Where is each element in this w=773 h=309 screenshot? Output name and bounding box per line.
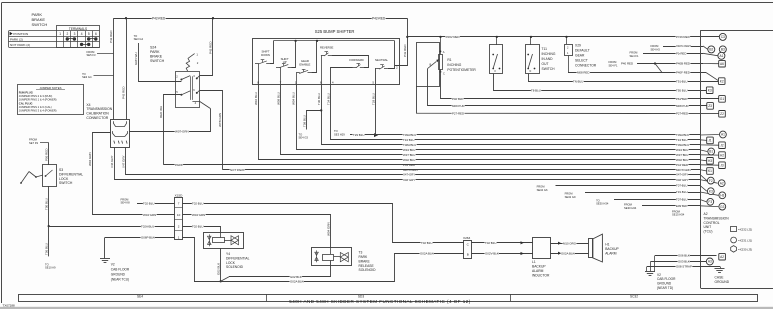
svg-text:CAB FLOOR: CAB FLOOR — [111, 268, 130, 272]
svg-text:BACKUP: BACKUP — [605, 247, 619, 251]
svg-text:T00 BLU: T00 BLU — [44, 198, 48, 210]
wire P29 RED inching bus — [407, 36, 719, 38]
Y4 diode — [208, 236, 212, 239]
svg-text:X46 GRY: X46 GRY — [676, 178, 688, 182]
Y4 solenoid box — [204, 233, 244, 249]
svg-text:BACKUP: BACKUP — [532, 265, 546, 269]
svg-text:PARK: PARK — [359, 255, 369, 259]
svg-text:E09 BLK: E09 BLK — [676, 204, 687, 208]
inching switch 2 box — [526, 45, 540, 74]
svg-text:GROUND: GROUND — [111, 273, 126, 277]
svg-text:ALARM: ALARM — [605, 251, 617, 255]
svg-text:5: 5 — [88, 32, 90, 36]
svg-text:G06 BLK: G06 BLK — [678, 254, 690, 258]
svg-text:W04 GRN: W04 GRN — [143, 213, 156, 217]
svg-text:T8 BLU: T8 BLU — [531, 88, 541, 92]
svg-text:P27 RED: P27 RED — [452, 111, 464, 115]
svg-text:H3: H3 — [720, 194, 724, 198]
junction on bus at X4 drop — [125, 17, 127, 19]
svg-text:B: B — [430, 63, 432, 67]
svg-text:T30 BLU: T30 BLU — [317, 93, 321, 105]
table row label POSITION — [10, 32, 13, 36]
S25 SHIFT DOWN wires — [258, 64, 260, 85]
R1 potentiometer — [440, 37, 442, 54]
svg-text:S24: S24 — [150, 46, 156, 50]
svg-text:REVERSE: REVERSE — [320, 45, 334, 49]
svg-text:SE32 G9: SE32 G9 — [565, 195, 576, 199]
svg-text:JUMPER PINS 3 & 4 (POWER): JUMPER PINS 3 & 4 (POWER) — [19, 108, 57, 112]
wire T19 BLU row 12 — [585, 192, 700, 194]
svg-text:T29 BLU: T29 BLU — [371, 93, 375, 105]
X4 connector body — [111, 120, 130, 148]
svg-text:W34 BLU: W34 BLU — [676, 148, 688, 152]
svg-text:1: 1 — [59, 32, 61, 36]
svg-text:JUMPER PINS 1 & 4 (POWER): JUMPER PINS 1 & 4 (POWER) — [19, 98, 57, 102]
svg-text:X47 GRY: X47 GRY — [403, 173, 415, 177]
svg-text:W37 BLU: W37 BLU — [403, 153, 415, 157]
TCU legend circle X231 — [731, 237, 737, 243]
svg-text:P29V RED: P29V RED — [446, 35, 460, 39]
terminals table grid — [57, 26, 100, 48]
svg-text:S3: S3 — [59, 168, 63, 172]
L1 inductor box — [533, 238, 551, 259]
svg-text:T02 BLU: T02 BLU — [143, 202, 154, 206]
svg-text:NEUTRAL: NEUTRAL — [375, 58, 388, 62]
svg-text:W04 BLU: W04 BLU — [292, 92, 296, 105]
S25 REVERSE wires — [321, 55, 323, 84]
wire W10 BLU pin8 to row W02 BLU — [259, 84, 701, 159]
svg-text:INCHING: INCHING — [447, 63, 461, 67]
svg-text:ALARM: ALARM — [532, 269, 544, 273]
svg-text:PARK: PARK — [175, 163, 183, 167]
wire T02 BLU into X15D pin 7 — [137, 203, 175, 205]
svg-text:SE4: SE4 — [137, 294, 143, 298]
jumper notes box — [18, 85, 84, 115]
wire P42 RED second drop to X4 — [126, 18, 128, 119]
svg-text:P40 BLK: P40 BLK — [452, 97, 463, 101]
svg-text:A1: A1 — [721, 133, 725, 137]
svg-text:J3: J3 — [720, 163, 724, 167]
S25 NEUTRAL wires — [375, 69, 378, 85]
svg-text:OUT: OUT — [542, 62, 549, 66]
svg-text:A2: A2 — [704, 212, 708, 216]
svg-text:SE5 F3: SE5 F3 — [87, 53, 96, 57]
S25 bump shifter box — [253, 39, 400, 85]
svg-text:NOT PARK: NOT PARK — [230, 168, 245, 172]
svg-text:X15D: X15D — [175, 193, 184, 197]
svg-text:G02V BLK: G02V BLK — [485, 252, 499, 256]
svg-text:JUMPER PINS 1 & 6 (CAL): JUMPER PINS 1 & 6 (CAL) — [19, 105, 52, 109]
wire X4 left side to X15D pin 10 (W04 GRN) — [93, 133, 175, 215]
svg-text:B3: B3 — [721, 48, 725, 52]
case ground symbol — [715, 268, 725, 270]
junction S3 branch — [48, 225, 50, 227]
cab floor ground V2 left — [104, 237, 106, 258]
svg-text:CALIBRATION: CALIBRATION — [86, 112, 109, 116]
wire G02V BLK X263 B to L1 — [472, 253, 533, 255]
svg-text:G3: G3 — [720, 205, 724, 209]
svg-text:W34 BLU: W34 BLU — [403, 148, 415, 152]
T3 solenoid box — [312, 248, 352, 266]
table contact dots PARK row — [66, 37, 69, 40]
svg-text:P06 RED: P06 RED — [44, 148, 48, 161]
title bar frame — [19, 295, 758, 302]
svg-text:4: 4 — [81, 32, 83, 36]
svg-text:2: 2 — [66, 32, 68, 36]
wire P27 RED row — [417, 86, 720, 114]
S24 contacts row 5-6 — [180, 94, 182, 96]
wire T07 BLU row 13 — [614, 199, 700, 201]
svg-text:P42 RED: P42 RED — [109, 30, 113, 43]
wire TN BLU switch2 to TCU — [529, 74, 719, 82]
svg-text:=X232 (J2): =X232 (J2) — [738, 227, 752, 231]
svg-text:T02 BLU: T02 BLU — [485, 241, 496, 245]
inching switch 2 — [530, 37, 532, 45]
svg-text:T07 BLU: T07 BLU — [676, 184, 687, 188]
S24 mechanical link — [190, 76, 192, 100]
svg-text:T11: T11 — [542, 47, 548, 51]
X29 connector body — [565, 45, 573, 56]
S25 FORWARD wires — [331, 68, 353, 85]
svg-text:SE34 G6: SE34 G6 — [537, 188, 548, 192]
svg-text:T02 BLU: T02 BLU — [192, 224, 203, 228]
wire V2 ground drop 3 — [646, 267, 648, 272]
svg-text:K3: K3 — [709, 189, 713, 193]
svg-text:POTENTIOMETER: POTENTIOMETER — [447, 68, 476, 72]
svg-text:6: 6 — [95, 32, 97, 36]
S24 lever actuator — [186, 58, 189, 71]
wire X29 to inching bus — [566, 37, 568, 44]
svg-text:UNIT: UNIT — [704, 225, 712, 229]
svg-text:PARK: PARK — [150, 50, 160, 54]
wire T07 BLU row 11 — [556, 185, 701, 187]
svg-text:SE15 H34: SE15 H34 — [672, 213, 685, 217]
svg-text:CONNECTOR: CONNECTOR — [86, 116, 108, 120]
svg-text:X47 GRY: X47 GRY — [676, 173, 688, 177]
svg-text:H1: H1 — [605, 243, 609, 247]
svg-text:C3: C3 — [721, 35, 725, 39]
T3 diode — [315, 252, 319, 255]
svg-text:SE7 F9: SE7 F9 — [29, 141, 38, 145]
svg-text:X46 GRY: X46 GRY — [110, 155, 114, 168]
svg-text:G02 BLK: G02 BLK — [216, 263, 220, 275]
TCU pin A3 circle — [706, 258, 713, 265]
svg-text:SELECT: SELECT — [575, 59, 588, 63]
wire T00 BLU from S3 — [48, 186, 50, 226]
wire M10 ORG L1 to H1 — [551, 243, 589, 245]
wire P40 BLK pot C to TCU — [441, 70, 720, 99]
svg-text:BRAKE: BRAKE — [359, 259, 371, 263]
svg-text:T07 BLU: T07 BLU — [676, 198, 687, 202]
svg-text:C: C — [443, 71, 445, 75]
svg-text:TX07288: TX07288 — [3, 303, 16, 307]
svg-text:DOWN: DOWN — [261, 53, 270, 57]
svg-text:DIFFERENTIAL: DIFFERENTIAL — [226, 256, 250, 260]
wire G02 BLK from T3 to Y4 junction — [229, 260, 331, 276]
svg-text:SOLENOID: SOLENOID — [359, 268, 377, 272]
wire G06 BLK to TCU pin A2 — [655, 255, 717, 257]
svg-text:LOCK: LOCK — [226, 261, 236, 265]
svg-text:SE4 H3: SE4 H3 — [651, 47, 661, 51]
svg-text:SE10 A9: SE10 A9 — [45, 266, 56, 270]
junction below Y4 — [220, 280, 222, 282]
junction T30 branch — [320, 109, 322, 111]
svg-text:NOT PARK (2): NOT PARK (2) — [10, 43, 30, 47]
svg-text:T02 BLU: T02 BLU — [192, 202, 203, 206]
svg-text:T34 BLU: T34 BLU — [676, 138, 687, 142]
svg-text:R1: R1 — [447, 58, 451, 62]
wire P42 RED bus — [114, 18, 408, 20]
wire P43 RED drop — [395, 18, 408, 65]
wire T02 BLU X15D pin2 to Y4 solenoid — [183, 227, 221, 233]
svg-text:SE4 F1: SE4 F1 — [609, 63, 618, 67]
svg-text:W37 BLU: W37 BLU — [676, 153, 688, 157]
svg-text:SE30 H34: SE30 H34 — [596, 202, 609, 206]
svg-text:(NEAR TCU): (NEAR TCU) — [111, 278, 129, 282]
S25 GEAR ENABLE wires — [296, 73, 298, 84]
svg-text:J1: J1 — [708, 139, 712, 143]
svg-text:X263: X263 — [463, 236, 471, 240]
svg-text:W04 GRN: W04 GRN — [192, 213, 205, 217]
wire V2 ground drop 1 — [654, 256, 656, 272]
svg-text:L1: L1 — [532, 260, 536, 264]
S3 switch box — [43, 165, 57, 187]
svg-text:T09 BLU: T09 BLU — [303, 115, 307, 127]
wire T06 BLU down from junction — [48, 226, 50, 256]
wire diagonals to TCU lower pins — [700, 134, 719, 137]
svg-text:CONNECTOR: CONNECTOR — [575, 64, 597, 68]
svg-text:P40B RED: P40B RED — [676, 62, 690, 66]
page border frame — [2, 2, 773, 4]
wire P40 RED with split — [637, 63, 703, 65]
svg-text:RUN PLUG: RUN PLUG — [19, 91, 33, 95]
S24 switch box — [176, 72, 200, 108]
svg-text:A1: A1 — [719, 54, 723, 58]
svg-text:M09 PUR: M09 PUR — [452, 104, 465, 108]
svg-text:X46 GRY: X46 GRY — [403, 178, 415, 182]
wire G02A BLK L1 to H1 — [551, 253, 589, 255]
svg-text:H2: H2 — [720, 153, 724, 157]
svg-text:T09A BLU: T09A BLU — [676, 143, 689, 147]
svg-text:PARK (2): PARK (2) — [10, 38, 23, 42]
wire P42 RED drop to S24 pin 3 — [197, 76, 200, 79]
table contact dots NOT PARK row — [80, 43, 83, 46]
svg-text:DIFFERENTIAL: DIFFERENTIAL — [59, 172, 83, 176]
svg-text:=X230 (J3): =X230 (J3) — [738, 247, 752, 251]
svg-text:G08 STRAP: G08 STRAP — [676, 265, 692, 269]
TCU upper connector pins — [719, 33, 726, 40]
T3 coil — [323, 255, 334, 261]
svg-text:N: N — [530, 70, 532, 73]
svg-text:A2: A2 — [720, 181, 724, 185]
svg-text:M08 RED: M08 RED — [577, 71, 590, 75]
svg-text:P43 RED: P43 RED — [403, 44, 407, 57]
svg-text:T19 BLU: T19 BLU — [676, 190, 687, 194]
svg-text:T91 BLU: T91 BLU — [676, 79, 687, 83]
svg-text:SE30 H34: SE30 H34 — [624, 206, 637, 210]
svg-text:TRANSMISSION: TRANSMISSION — [704, 216, 730, 220]
svg-text:V2: V2 — [657, 273, 661, 277]
svg-text:GROUND: GROUND — [715, 280, 730, 284]
svg-text:B2: B2 — [709, 48, 713, 52]
svg-text:T08A BLU: T08A BLU — [403, 143, 416, 147]
junction bus at S24 drop — [212, 17, 214, 19]
svg-text:A: A — [443, 50, 445, 54]
TCU lower connector pins — [720, 131, 727, 138]
svg-text:T02A BLU: T02A BLU — [141, 224, 154, 228]
wire NOT PARK row — [223, 169, 701, 171]
svg-text:T06 BLU: T06 BLU — [44, 243, 48, 255]
svg-text:K1: K1 — [708, 169, 712, 173]
S25 internal supply bus — [273, 40, 394, 42]
svg-text:POSITION: POSITION — [13, 32, 28, 36]
wire E09 BLK row 14 — [642, 205, 700, 207]
X263 connector body — [464, 241, 472, 259]
svg-text:F2: F2 — [709, 179, 713, 183]
svg-text:G02A BLK: G02A BLK — [420, 252, 434, 256]
svg-text:P42 RED: P42 RED — [152, 17, 166, 21]
svg-text:G06P BLK: G06P BLK — [141, 236, 155, 240]
wire X47 GRY from X4 to TCU — [126, 148, 701, 175]
A2 TCU box — [701, 30, 773, 32]
wire T09 BLU branch to SE4 G3 — [307, 111, 322, 130]
wire G02 BLK below Y4 — [220, 248, 222, 281]
svg-text:G02A BLK: G02A BLK — [290, 279, 304, 283]
svg-text:P61 BLK: P61 BLK — [676, 97, 687, 101]
svg-text:A2: A2 — [720, 255, 724, 259]
svg-text:(NEAR TD): (NEAR TD) — [657, 286, 673, 290]
inching switch 1 box — [490, 45, 503, 74]
svg-text:G1: G1 — [720, 97, 724, 101]
wire T02 BLU X263 C to L1 — [472, 242, 533, 244]
wire T02 BLU X15D pin7 to X263 pin C — [183, 204, 465, 243]
svg-text:G02 BLK: G02 BLK — [290, 275, 302, 279]
inching switch 1 — [496, 37, 498, 45]
svg-text:K2: K2 — [720, 79, 724, 83]
svg-text:A3: A3 — [708, 260, 712, 264]
wire X46 GRY from X4 to TCU — [115, 148, 701, 180]
svg-text:P40F RED: P40F RED — [676, 71, 690, 75]
svg-text:DEFAULT: DEFAULT — [575, 49, 590, 53]
svg-text:P42 RED: P42 RED — [372, 17, 386, 21]
svg-text:CASE: CASE — [715, 276, 725, 280]
S25 SHIFT UP wires — [280, 67, 282, 84]
wire W04 BLU pin1 to row W34 BLU — [297, 84, 701, 149]
svg-text:SE3 G4: SE3 G4 — [82, 75, 92, 79]
svg-text:K3: K3 — [708, 88, 712, 92]
wire RED WH from S24 pin 5 to PARK row — [164, 95, 182, 165]
svg-text:540H AND 548H SKIDDER SYSTEM F: 540H AND 548H SKIDDER SYSTEM FUNCTIONAL … — [289, 299, 471, 304]
svg-text:T34 BLU: T34 BLU — [327, 93, 331, 105]
wire GRN WH to S24 — [139, 43, 182, 82]
svg-text:CONTROL: CONTROL — [704, 221, 720, 225]
svg-text:LOCK: LOCK — [59, 177, 69, 181]
wire WTB GRN from S24 pin 6 to NOT PARK row — [197, 90, 200, 93]
svg-text:SWITCH: SWITCH — [542, 67, 556, 71]
svg-text:T95 BLU: T95 BLU — [676, 88, 687, 92]
svg-text:G03 BLK: G03 BLK — [678, 259, 690, 263]
svg-text:B: B — [467, 253, 469, 257]
svg-text:SC32: SC32 — [630, 294, 638, 298]
wire G02A BLK from Y4 junction to X263 pin B — [194, 254, 464, 282]
TCU legend hexagon X230 — [731, 246, 737, 253]
H1 backup alarm speaker — [589, 239, 593, 258]
svg-text:INDUCTOR: INDUCTOR — [532, 274, 550, 278]
svg-text:SE4 F1: SE4 F1 — [630, 54, 639, 58]
TCU pin A2 square — [719, 253, 726, 260]
svg-text:H3: H3 — [708, 159, 712, 163]
svg-text:SE3 H29: SE3 H29 — [334, 132, 345, 136]
svg-text:W10 BLU: W10 BLU — [254, 92, 258, 105]
svg-text:SE3 G4: SE3 G4 — [134, 37, 144, 41]
svg-text:P42 RED: P42 RED — [122, 86, 126, 99]
svg-text:T3: T3 — [359, 251, 363, 255]
svg-text:W04 GRN: W04 GRN — [88, 152, 92, 166]
svg-text:Z2: Z2 — [720, 112, 724, 116]
svg-text:W02 BLU: W02 BLU — [676, 158, 688, 162]
svg-text:SD3: SD3 — [358, 294, 364, 298]
svg-text:P40 RED: P40 RED — [621, 62, 633, 66]
svg-text:SE4 K8: SE4 K8 — [121, 201, 131, 205]
R1 potentiometer box — [417, 43, 440, 87]
svg-text:X4: X4 — [86, 103, 90, 107]
svg-text:ENABLE: ENABLE — [299, 62, 310, 66]
svg-text:TRANSMISSION: TRANSMISSION — [86, 107, 112, 111]
wire P42 RED vertical to X4 pin — [113, 18, 115, 119]
V2 cab floor ground right symbol — [645, 271, 655, 273]
wire G08 STRAP to case ground — [647, 266, 720, 268]
svg-text:FORWARD: FORWARD — [349, 58, 363, 62]
wire T8 BLU switch1 to TCU — [494, 74, 708, 91]
svg-text:G02A BLK: G02A BLK — [561, 251, 575, 255]
svg-text:GROUND: GROUND — [657, 282, 672, 286]
svg-text:INCHING: INCHING — [542, 52, 556, 56]
svg-text:RED WH: RED WH — [159, 106, 163, 118]
svg-text:WTB GRN: WTB GRN — [218, 113, 222, 127]
wire G03 BLK to TCU pin A3 — [651, 261, 707, 263]
svg-text:P27 RED: P27 RED — [676, 111, 688, 115]
wire V2 ground drop 2 — [650, 261, 652, 271]
svg-text:T09A BLU: T09A BLU — [403, 133, 416, 137]
svg-text:CAB FLOOR: CAB FLOOR — [657, 277, 676, 281]
svg-text:T34 BLU: T34 BLU — [403, 138, 414, 142]
svg-text:P1 RED: P1 RED — [676, 51, 686, 55]
svg-text:W09 BLU: W09 BLU — [277, 92, 281, 105]
svg-text:BRAKE: BRAKE — [150, 55, 163, 59]
svg-text:3: 3 — [74, 32, 76, 36]
svg-text:TN BLU: TN BLU — [573, 79, 583, 83]
svg-text:X47 GRY: X47 GRY — [122, 155, 126, 168]
wire P1 RED to TCU pin A1 — [643, 53, 703, 55]
X15D connector body — [175, 198, 183, 240]
svg-text:=X231 (J1): =X231 (J1) — [738, 238, 752, 242]
wire T30 BLU pin6 to row T09A BLU — [322, 84, 701, 144]
wire X15D pin1 to G02A BLK row — [183, 238, 195, 282]
wire T02A BLU to X15D pin 2 — [49, 226, 175, 228]
wire W04 GRN X15D pin10 to T3 solenoid — [183, 215, 331, 248]
Y4 valve — [231, 236, 239, 245]
svg-text:P42 RED: P42 RED — [209, 41, 213, 54]
wire T34 BLU pin4 to row T34 BLU — [331, 84, 701, 139]
svg-text:W04 GRN: W04 GRN — [327, 222, 331, 236]
svg-text:10: 10 — [177, 213, 181, 217]
wire T29 BLU pin5 to row 1 — [375, 84, 377, 135]
svg-text:V2: V2 — [111, 263, 115, 267]
svg-text:(TCU): (TCU) — [704, 230, 713, 234]
svg-text:SWITCH: SWITCH — [32, 22, 48, 27]
svg-text:JUMPER PINS 2 & 3 (RUN): JUMPER PINS 2 & 3 (RUN) — [19, 94, 53, 98]
svg-text:SWITCH: SWITCH — [59, 181, 73, 185]
